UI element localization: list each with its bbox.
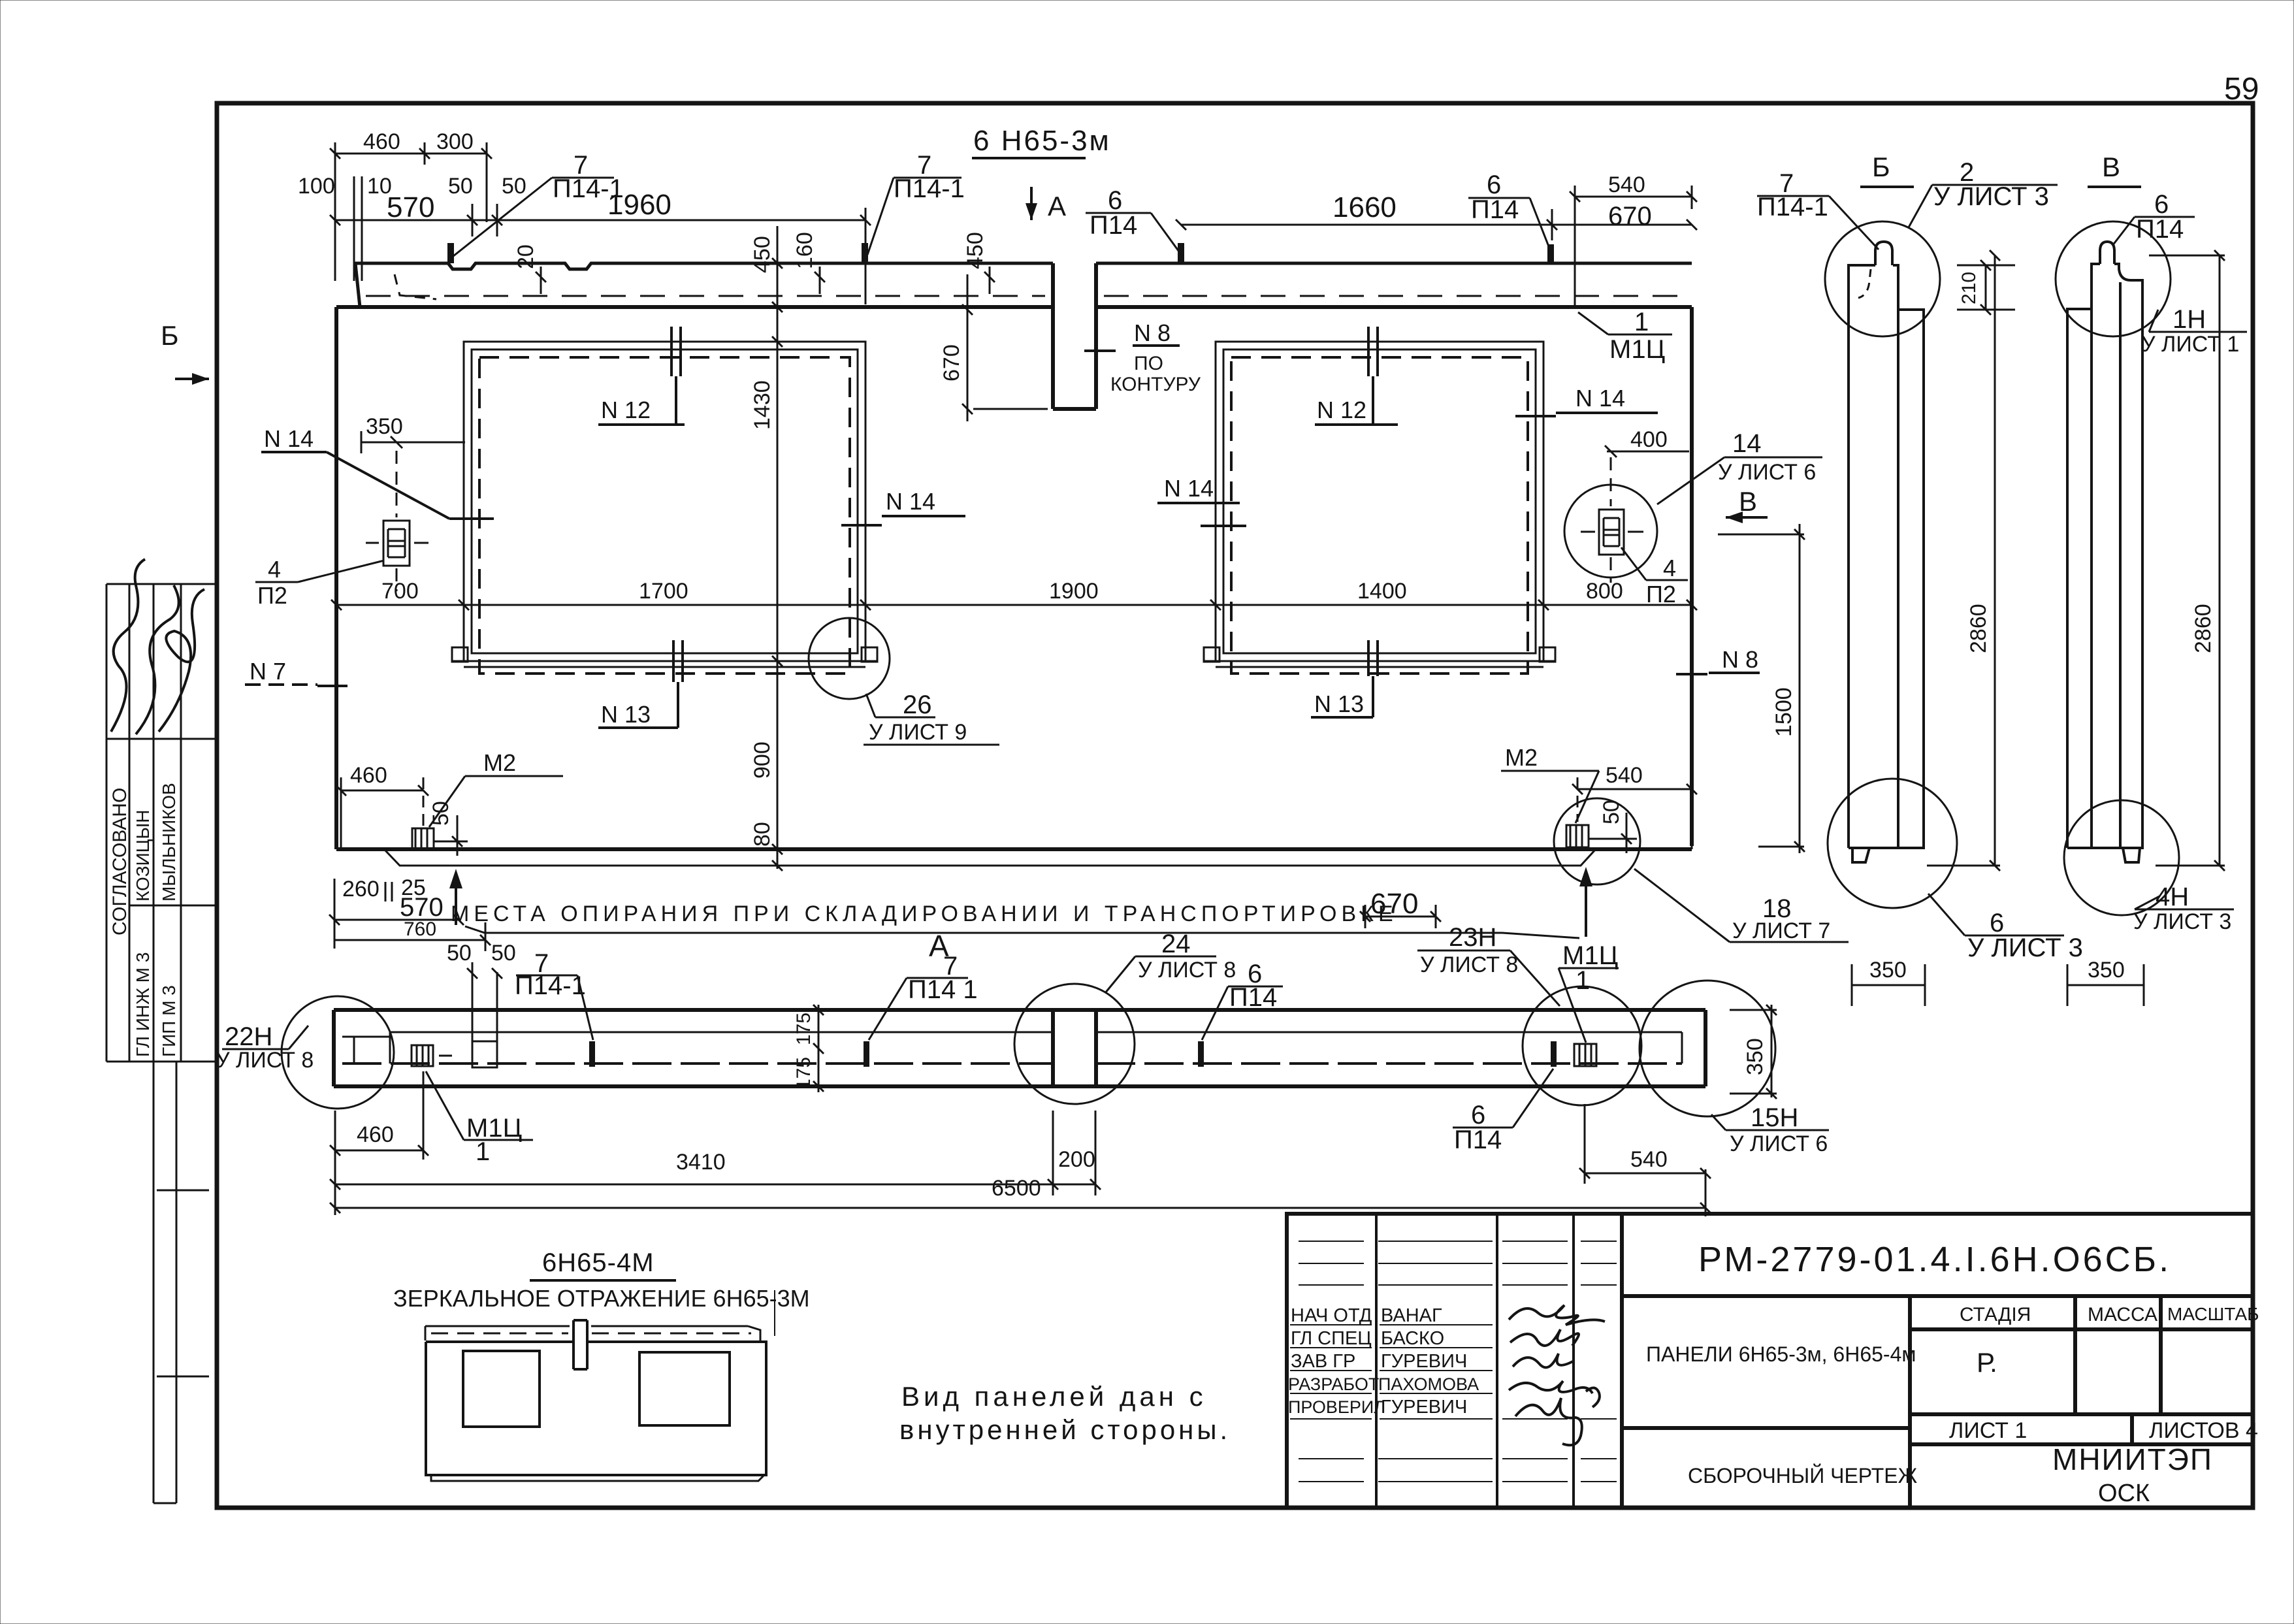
- svg-text:6Н65-4М: 6Н65-4М: [542, 1248, 654, 1277]
- svg-text:800: 800: [1586, 579, 1623, 604]
- small top ticks 20/160/450: [536, 267, 995, 294]
- svg-text:МЫЛЬНИКОВ: МЫЛЬНИКОВ: [159, 783, 179, 901]
- svg-text:ЛИСТ 1: ЛИСТ 1: [1949, 1418, 2027, 1443]
- rebar marker N13 (W2): [1311, 640, 1378, 717]
- dim 2860 (Б): [1927, 250, 2000, 871]
- svg-text:МАССА: МАССА: [2088, 1304, 2157, 1325]
- svg-text:РМ-2779-01.4.I.6Н.О6СБ.: РМ-2779-01.4.I.6Н.О6СБ.: [1698, 1240, 2171, 1279]
- svg-text:175: 175: [793, 1057, 815, 1090]
- dim 670 vertical (slot depth): [962, 274, 1048, 421]
- lifting anchor tick П14-1 #1: [447, 243, 454, 263]
- anchor tick П14 #2: [1547, 244, 1554, 263]
- section Б outline: [1849, 265, 1924, 848]
- tick П14-1 (section left): [589, 1041, 595, 1067]
- svg-text:У ЛИСТ 3: У ЛИСТ 3: [1933, 182, 2049, 211]
- svg-text:П14 1: П14 1: [908, 975, 978, 1004]
- svg-text:700: 700: [381, 579, 419, 604]
- svg-text:22Н: 22Н: [225, 1022, 272, 1051]
- dim 460 (section bottom): [330, 1071, 428, 1215]
- label 23Н / У ЛИСТ 8: [1417, 950, 1560, 1006]
- title block outer: [1287, 1214, 2253, 1508]
- label 6/П14 (section top): [1202, 986, 1283, 1040]
- svg-text:50: 50: [447, 941, 472, 966]
- label 26 / У ЛИСТ 9: [864, 694, 999, 745]
- svg-text:2860: 2860: [1966, 604, 1991, 653]
- svg-text:350: 350: [1743, 1038, 1768, 1075]
- svg-text:ЗАВ ГР: ЗАВ ГР: [1291, 1351, 1355, 1372]
- window opening W1: [452, 342, 877, 674]
- svg-text:ГЛ СПЕЦ: ГЛ СПЕЦ: [1291, 1328, 1372, 1349]
- svg-text:М1Ц: М1Ц: [1609, 335, 1665, 364]
- label 18 / У ЛИСТ 7: [1634, 869, 1849, 942]
- svg-text:У ЛИСТ 6: У ЛИСТ 6: [1718, 460, 1816, 485]
- svg-text:П14: П14: [2136, 215, 2184, 244]
- label M2 left: [429, 776, 563, 827]
- dim 540 (M2 right): [1572, 776, 1697, 849]
- svg-text:ПРОВЕРИЛ: ПРОВЕРИЛ: [1288, 1397, 1385, 1417]
- svg-text:М1Ц: М1Ц: [466, 1114, 522, 1143]
- svg-text:ПО: ПО: [1134, 353, 1163, 374]
- svg-text:14: 14: [1732, 429, 1762, 458]
- svg-text:Вид панелей дан с: Вид панелей дан с: [901, 1381, 1207, 1412]
- svg-text:540: 540: [1608, 172, 1645, 197]
- anchor М1Ц left (section): [412, 1045, 452, 1066]
- label 4/П2 right: [1621, 547, 1688, 580]
- anchor M2 right (circled): [1554, 777, 1640, 885]
- svg-text:У ЛИСТ 8: У ЛИСТ 8: [216, 1048, 314, 1073]
- svg-text:БАСКО: БАСКО: [1381, 1328, 1444, 1349]
- svg-text:460: 460: [363, 129, 400, 154]
- anchor П2 right (circled): [1564, 457, 1657, 583]
- dim 210 (Б): [1957, 260, 2015, 315]
- anchor П2 left: [366, 451, 428, 591]
- title block left stamp columns: [1376, 1214, 1574, 1508]
- svg-text:СБОРОЧНЫЙ ЧЕРТЕЖ: СБОРОЧНЫЙ ЧЕРТЕЖ: [1688, 1464, 1918, 1487]
- rebar marker N13 (W1): [598, 640, 683, 728]
- svg-text:N 14: N 14: [1164, 475, 1214, 502]
- section В lifting loop: [2100, 242, 2114, 264]
- svg-text:260: 260: [342, 877, 380, 901]
- svg-text:ПАХОМОВА: ПАХОМОВА: [1378, 1374, 1479, 1394]
- dim 540 (section bottom right): [1579, 1104, 1711, 1184]
- dim 3410 / 200: [330, 1111, 1101, 1195]
- dim 350 (Б bottom): [1852, 964, 1925, 1006]
- mirror panel bottom lip: [431, 1475, 764, 1481]
- svg-text:У ЛИСТ 1: У ЛИСТ 1: [2141, 332, 2239, 357]
- rebar marker N8 (right edge): [1676, 673, 1760, 674]
- svg-text:6500: 6500: [992, 1176, 1041, 1201]
- svg-text:1660: 1660: [1333, 191, 1397, 223]
- svg-text:МАСШТАБ: МАСШТАБ: [2167, 1304, 2259, 1324]
- label 7/П14-1 (section left): [516, 975, 593, 1040]
- section central slot: [1053, 1010, 1096, 1086]
- label 4/П2 left: [255, 560, 384, 582]
- svg-text:100: 100: [298, 174, 335, 199]
- dim row 460/300: [330, 142, 492, 281]
- svg-text:ГУРЕВИЧ: ГУРЕВИЧ: [1381, 1351, 1467, 1372]
- svg-text:N 7: N 7: [250, 658, 286, 685]
- rebar marker N14 (W1 right): [841, 516, 965, 525]
- svg-text:СТАДІЯ: СТАДІЯ: [1960, 1304, 2031, 1325]
- left strip rotated captions: [109, 783, 179, 1057]
- svg-text:450: 450: [963, 232, 988, 269]
- svg-text:540: 540: [1630, 1147, 1668, 1172]
- svg-text:50: 50: [491, 941, 516, 966]
- section arrow А (top): [1026, 187, 1037, 220]
- top strip left hidden corner: [395, 274, 436, 299]
- svg-text:20: 20: [513, 244, 538, 269]
- top strip hidden dashed line: [366, 295, 1045, 297]
- mirror panel top strip: [425, 1326, 760, 1340]
- center dimension row 700/1700/1900/1400/800: [331, 600, 1697, 610]
- rebar marker N14 (W2 left): [1157, 503, 1246, 526]
- anchor tick П14 #1: [1178, 243, 1184, 263]
- svg-text:НАЧ ОТД: НАЧ ОТД: [1291, 1305, 1372, 1326]
- svg-text:80: 80: [750, 822, 775, 847]
- svg-text:670: 670: [1608, 202, 1652, 231]
- mirror panel body: [426, 1342, 766, 1475]
- svg-text:У ЛИСТ 3: У ЛИСТ 3: [1967, 934, 2083, 962]
- svg-text:ПАНЕЛИ 6Н65-3м, 6Н65-4м: ПАНЕЛИ 6Н65-3м, 6Н65-4м: [1646, 1342, 1916, 1366]
- svg-text:350: 350: [366, 414, 403, 439]
- svg-text:15Н: 15Н: [1751, 1103, 1798, 1132]
- label М1Ц/1 (section bottom left): [426, 1071, 533, 1140]
- section В detail circles: [2056, 221, 2171, 336]
- label 22Н / У ЛИСТ 8: [222, 1026, 308, 1049]
- lifting anchor tick П14-1 #2: [862, 243, 868, 263]
- label 2 / У ЛИСТ 3: [1909, 185, 2058, 227]
- section В bottom foot: [2123, 848, 2140, 862]
- svg-text:РАЗРАБОТ: РАЗРАБОТ: [1288, 1374, 1379, 1394]
- svg-text:ВАНАГ: ВАНАГ: [1381, 1305, 1442, 1326]
- svg-text:П14-1: П14-1: [515, 971, 586, 1000]
- support arrow right: [1579, 867, 1592, 937]
- svg-text:N 12: N 12: [601, 397, 651, 423]
- svg-text:У ЛИСТ 3: У ЛИСТ 3: [2133, 909, 2231, 934]
- section Б detail circles: [1825, 221, 1940, 336]
- detail circle 15Н (section right end): [1640, 981, 1775, 1116]
- svg-text:А: А: [1048, 191, 1066, 221]
- svg-text:N 12: N 12: [1317, 397, 1366, 423]
- svg-text:300: 300: [436, 129, 474, 154]
- panel outline: [336, 307, 1692, 849]
- dim 350 (left П2): [361, 431, 465, 453]
- svg-text:N 8: N 8: [1722, 646, 1758, 673]
- section Б hidden dash: [1858, 269, 1871, 298]
- svg-text:N 14: N 14: [264, 425, 314, 452]
- svg-text:210: 210: [1958, 272, 1980, 304]
- svg-text:400: 400: [1630, 427, 1668, 452]
- label 6/П14 (section bottom): [1453, 1069, 1553, 1128]
- left strip signatures (squiggles): [111, 559, 204, 734]
- tick П14 (section): [1198, 1041, 1204, 1067]
- svg-text:350: 350: [1869, 958, 1907, 983]
- svg-text:24: 24: [1161, 930, 1191, 958]
- section Б lifting loop: [1875, 242, 1892, 265]
- svg-text:160: 160: [792, 232, 817, 269]
- detail circle 24 (section slot): [1014, 984, 1135, 1104]
- svg-text:Б: Б: [1872, 152, 1890, 182]
- svg-text:1500: 1500: [1771, 687, 1796, 737]
- rebar marker N8 (slot, по контуру): [1084, 346, 1180, 351]
- svg-text:570: 570: [400, 893, 444, 922]
- svg-text:М2: М2: [1505, 744, 1538, 771]
- support arrow left: [449, 869, 462, 925]
- svg-text:П14: П14: [1229, 983, 1277, 1012]
- dim 460 (M2 left): [336, 777, 428, 849]
- detail circle 22Н (section left end): [282, 996, 394, 1109]
- svg-text:У ЛИСТ 8: У ЛИСТ 8: [1138, 958, 1236, 983]
- dim 670 (bottom right of panel): [1360, 905, 1441, 928]
- svg-text:В: В: [2102, 152, 2120, 182]
- svg-text:N 8: N 8: [1134, 319, 1171, 346]
- svg-text:1: 1: [1634, 308, 1649, 336]
- mirror window W2: [639, 1352, 730, 1425]
- detail circle 26 (W1 bottom-right corner): [809, 618, 890, 699]
- anchor М1Ц right (section, circled): [1523, 986, 1641, 1105]
- anchor M2 left: [412, 777, 434, 849]
- svg-text:П14-1: П14-1: [1757, 193, 1828, 221]
- svg-text:У ЛИСТ 6: У ЛИСТ 6: [1730, 1131, 1828, 1156]
- svg-text:670: 670: [939, 344, 964, 382]
- svg-text:СОГЛАСОВАНО: СОГЛАСОВАНО: [109, 788, 131, 935]
- dim 175/175 (section): [813, 1005, 824, 1092]
- dim 350 (section right): [1730, 1005, 1777, 1099]
- label 24 / У ЛИСТ 8: [1105, 956, 1216, 993]
- svg-text:МНИИТЭП: МНИИТЭП: [2052, 1442, 2213, 1476]
- svg-text:460: 460: [350, 763, 387, 788]
- svg-text:П14: П14: [1454, 1126, 1502, 1154]
- svg-text:внутренней стороны.: внутренней стороны.: [899, 1414, 1231, 1445]
- svg-text:1Н: 1Н: [2173, 305, 2206, 334]
- title block stamp texts: [1288, 1305, 1479, 1418]
- svg-text:200: 200: [1058, 1147, 1095, 1172]
- svg-text:ЗЕРКАЛЬНОЕ ОТРАЖЕНИЕ 6Н65-3М: ЗЕРКАЛЬНОЕ ОТРАЖЕНИЕ 6Н65-3М: [393, 1285, 810, 1312]
- label 6/П14 #1: [1086, 213, 1182, 256]
- section В outline: [2067, 264, 2142, 848]
- svg-text:ГУРЕВИЧ: ГУРЕВИЧ: [1381, 1397, 1467, 1418]
- svg-text:М2: М2: [483, 749, 516, 776]
- label 1/М1Ц (top right): [1578, 312, 1672, 334]
- rebar marker N12 (W1): [598, 327, 685, 425]
- svg-text:МЕСТА ОПИРАНИЯ ПРИ СКЛАДИРОВАН: МЕСТА ОПИРАНИЯ ПРИ СКЛАДИРОВАНИИ И ТРАНС…: [451, 901, 1398, 926]
- svg-text:760: 760: [404, 918, 436, 940]
- svg-text:4: 4: [268, 556, 281, 583]
- svg-text:2860: 2860: [2191, 604, 2216, 653]
- panel top profile strip: [355, 263, 1692, 307]
- svg-text:П2: П2: [1646, 581, 1676, 608]
- svg-text:4Н: 4Н: [2156, 883, 2189, 911]
- svg-text:1900: 1900: [1049, 579, 1099, 604]
- tick П14 #2 (section right): [1551, 1041, 1557, 1067]
- svg-text:460: 460: [357, 1122, 394, 1147]
- svg-text:У ЛИСТ 8: У ЛИСТ 8: [1420, 952, 1518, 977]
- dim 50 (M2 right): [1589, 813, 1637, 853]
- label M2 right: [1501, 771, 1599, 823]
- dim row 1960 with 100/10/570/50/50: [330, 176, 871, 304]
- svg-text:1: 1: [476, 1137, 490, 1166]
- svg-text:N 13: N 13: [1314, 690, 1364, 717]
- svg-text:1430: 1430: [750, 380, 775, 430]
- svg-text:1700: 1700: [639, 579, 688, 604]
- svg-text:П14: П14: [1471, 195, 1519, 224]
- svg-text:3410: 3410: [676, 1150, 726, 1175]
- svg-text:50: 50: [448, 174, 473, 199]
- mirror right edge mark: [774, 1290, 775, 1336]
- svg-text:ГЛ ИНЖ М 3: ГЛ ИНЖ М 3: [133, 952, 153, 1057]
- svg-text:КОНТУРУ: КОНТУРУ: [1110, 374, 1201, 395]
- rebar marker N12 (W2): [1315, 327, 1398, 425]
- svg-text:П14: П14: [1090, 211, 1137, 240]
- svg-text:540: 540: [1606, 763, 1643, 788]
- label 6 / У ЛИСТ 3 (Б bottom): [1928, 894, 2064, 935]
- svg-text:N 14: N 14: [1575, 385, 1625, 412]
- svg-text:1: 1: [1575, 966, 1590, 995]
- dim row 1660 / 670: [1176, 209, 1697, 240]
- svg-text:У ЛИСТ 7: У ЛИСТ 7: [1732, 918, 1830, 943]
- vertical dim column 450/1430/900/80: [772, 226, 783, 871]
- rebar marker N14 (W2 right): [1515, 413, 1658, 416]
- svg-text:ЛИСТОВ 4: ЛИСТОВ 4: [2149, 1418, 2258, 1443]
- svg-text:900: 900: [750, 741, 775, 779]
- svg-text:450: 450: [750, 236, 775, 273]
- svg-text:23Н: 23Н: [1449, 923, 1496, 952]
- svg-text:Б: Б: [161, 320, 179, 351]
- dim 400 (right П2): [1605, 446, 1689, 457]
- sheet border frame: [217, 103, 2253, 1508]
- section outline: [334, 1010, 1705, 1086]
- label 6/П14 #2: [1468, 198, 1552, 255]
- svg-text:50: 50: [1599, 800, 1624, 824]
- label 15Н / У ЛИСТ 6: [1711, 1114, 1829, 1130]
- svg-text:ОСК: ОСК: [2098, 1480, 2150, 1507]
- mirror window W1: [463, 1351, 540, 1427]
- svg-text:175: 175: [793, 1013, 815, 1045]
- svg-text:N 14: N 14: [886, 488, 935, 515]
- svg-text:1400: 1400: [1357, 579, 1407, 604]
- svg-text:50: 50: [428, 801, 453, 826]
- panel bottom lip: [385, 850, 1595, 866]
- left signature strip table: [106, 584, 216, 1503]
- dim 2860 (В): [2149, 250, 2225, 871]
- svg-text:570: 570: [387, 191, 434, 223]
- rebar marker N14 (W1 left): [261, 452, 494, 519]
- label 7/П14-1 (Б top): [1757, 196, 1879, 250]
- svg-text:50: 50: [502, 174, 526, 199]
- svg-text:М1Ц: М1Ц: [1562, 941, 1618, 970]
- section inner lines: [342, 1032, 1682, 1064]
- dim 1500 (right): [1718, 524, 1805, 853]
- mirror panel central tab: [573, 1320, 587, 1369]
- central slot in top edge: [1053, 263, 1096, 409]
- label М1Ц/1 (section right): [1559, 968, 1619, 1043]
- label 14 / У ЛИСТ 6: [1657, 457, 1822, 504]
- svg-text:350: 350: [2088, 958, 2125, 983]
- section Б bottom foot: [1852, 848, 1869, 862]
- svg-text:ГИП М 3: ГИП М 3: [159, 985, 179, 1057]
- window opening W2: [1204, 342, 1555, 674]
- dim block 260/25/570/760: [329, 879, 491, 951]
- anchor block 50/50 (section left): [467, 962, 502, 1067]
- svg-text:6 Н65-3м: 6 Н65-3м: [973, 125, 1111, 157]
- tick П14-1 (section mid): [864, 1041, 869, 1067]
- svg-text:П2: П2: [257, 582, 287, 609]
- label 4Н / У ЛИСТ 3 (В bottom): [2135, 896, 2234, 909]
- svg-text:Р.: Р.: [1977, 1347, 1997, 1378]
- label 6/П14 (В top): [2112, 217, 2195, 246]
- svg-text:П14-1: П14-1: [553, 174, 624, 203]
- support bracket line: [465, 926, 1579, 938]
- title block stamp thin row lines: [1290, 1241, 1617, 1482]
- label 1Н / У ЛИСТ 1: [2149, 310, 2247, 332]
- svg-text:26: 26: [903, 690, 932, 719]
- label 7/П14 1 (section mid): [869, 978, 968, 1040]
- svg-text:КОЗИЦЫН: КОЗИЦЫН: [133, 809, 153, 901]
- title block signatures: [1509, 1305, 1605, 1445]
- dim 540 (top right): [1570, 186, 1697, 307]
- dim 6500: [330, 1169, 1711, 1216]
- svg-text:У ЛИСТ 9: У ЛИСТ 9: [869, 720, 967, 745]
- svg-text:N 13: N 13: [601, 701, 651, 728]
- rebar marker N7 (left edge): [245, 685, 347, 686]
- dim 350 (В bottom): [2067, 964, 2144, 1006]
- svg-text:4: 4: [1663, 555, 1676, 581]
- label 7/П14-1 #2: [867, 178, 961, 255]
- svg-text:П14-1: П14-1: [894, 174, 965, 203]
- label 7/П14-1 #1: [453, 178, 614, 256]
- dim 50 (M2 left): [434, 815, 468, 856]
